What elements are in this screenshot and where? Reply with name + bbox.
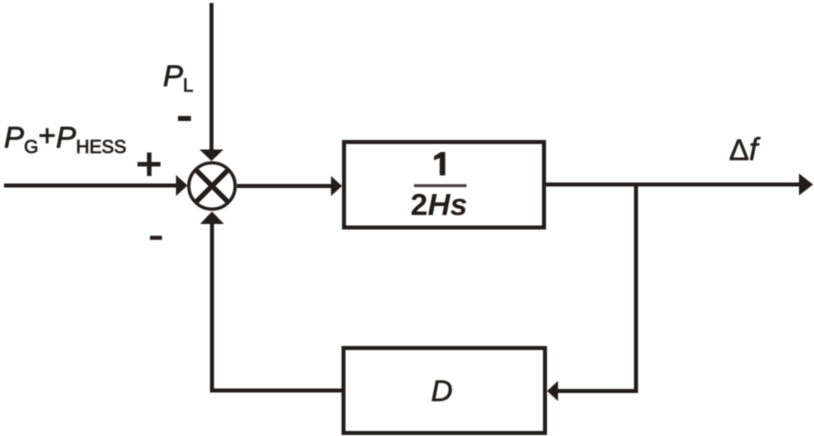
- svg-text:D: D: [431, 375, 453, 408]
- svg-text:2Hs: 2Hs: [411, 187, 468, 222]
- svg-text:Δf: Δf: [729, 131, 761, 167]
